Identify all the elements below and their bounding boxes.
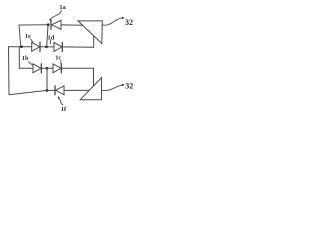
node junction dot row1 mid [45,46,48,49]
diode 1c triangle [53,64,61,73]
diode 1a triangle [52,20,61,29]
node junction dot row2 [46,67,49,70]
svg-text:1e: 1e [25,33,31,40]
wire node to 1d [47,46,55,48]
node junction dot bottom row [46,89,49,92]
wire 1b branch vertical [18,47,20,69]
wire 1c to corner down [61,67,93,69]
leader 1e [31,39,34,42]
leader 32 bottom [102,85,123,91]
diode 1d cathode bar [61,42,63,51]
node junction dot top row [47,23,50,26]
wire 1f to bottom amplifier [64,89,89,91]
wire left vertical from top corner down to row 1 [19,25,21,47]
wire node to 1f [47,89,55,91]
wire 1d to corner up [62,46,93,48]
wire bottom row sloped left [9,90,47,94]
diode 1c cathode bar [60,64,62,73]
node junction dot row1 left [20,45,23,48]
leader 1c [60,61,62,64]
diode 1f cathode bar [54,86,56,95]
leader 1b [29,62,33,65]
svg-text:1a: 1a [59,4,66,11]
diode 1b triangle [33,64,41,73]
wire row1 horizontal [9,46,32,48]
wire 1e to node [40,46,47,48]
wire left rail vertical [8,47,11,95]
diode 1e cathode bar [39,42,41,51]
diode 1d triangle [54,42,62,51]
leader 1a [50,10,61,20]
wire 1d row to top amplifier [93,36,95,47]
wire 1b to node [41,67,47,69]
svg-text:32: 32 [125,81,133,90]
leader 1f [59,98,63,105]
svg-text:1b: 1b [22,55,29,62]
diode 1a cathode bar [50,20,52,29]
svg-text:32: 32 [125,18,133,27]
diode 1b cathode bar [40,64,42,73]
wire vertical row2 node to bottom row [46,68,48,90]
diode 1e triangle [32,42,40,51]
svg-text:1d: 1d [48,35,55,42]
svg-text:1f: 1f [61,106,67,113]
leader 32 top [102,18,122,25]
wire top row left [19,24,48,26]
wire 1a to amplifier [61,24,83,26]
wire node to 1c [47,67,53,69]
diode 1f triangle [56,86,64,95]
op-amp 32 top amplifier triangle [78,21,102,44]
wire vertical between 1a node and 1e/1d node [47,25,48,46]
op-amp 32 bottom amplifier triangle [80,78,101,100]
wire row2 left [19,67,33,69]
leader 1d [49,40,51,44]
wire 1c row to bottom amplifier [93,68,95,85]
